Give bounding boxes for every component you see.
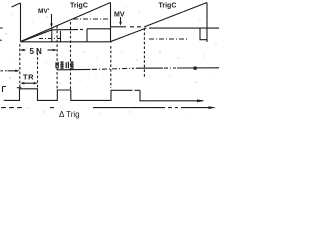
row3 junction dot — [194, 67, 197, 70]
row2 dash-dot level after ramp B — [149, 38, 189, 40]
mid dash-dot level y=38.5 — [39, 38, 63, 40]
svg-text:TrigC: TrigC — [159, 3, 177, 10]
svg-text:5N: 5N — [30, 47, 44, 56]
label modulation (CJK glyph blobs drawn as strokes) — [56, 62, 74, 69]
5N span marks — [21, 49, 26, 51]
row2 ramp B (holdoff ramp cycle 2) — [111, 28, 146, 41]
left margin tick y=28 — [0, 27, 3, 29]
ramp R2 (main sweep, second cycle) — [144, 3, 207, 28]
row2 step down — [200, 29, 208, 40]
row2 baseline — [21, 41, 113, 43]
row2 vertical x=87 — [86, 29, 88, 42]
trigger level dash-dot line y=19 — [73, 18, 110, 20]
left margin tick y=40 — [0, 39, 2, 41]
baseline right of ramp2 start — [149, 27, 219, 29]
dashed alignment vertical x=110.8 — [110, 46, 112, 88]
axis arrowhead bottom — [197, 99, 205, 102]
corner stub left of pulse1 — [17, 87, 22, 89]
MV arrow — [120, 17, 122, 25]
dashed alignment vertical x=57.1 — [56, 26, 58, 90]
bottom pulse train — [4, 89, 133, 101]
axis vertical with arrow — [20, 3, 22, 42]
svg-text:MV: MV — [114, 12, 125, 19]
flyback 1 — [110, 3, 112, 42]
row2 gate top line — [52, 29, 78, 31]
scan speckle noise — [5, 6, 216, 114]
flyback 2 — [206, 3, 208, 43]
delta trig dimension line — [1, 107, 22, 109]
dashed alignment vertical x=19.8 — [19, 44, 21, 89]
dashed alignment vertical x=70.5 — [70, 22, 72, 90]
MV' arrow — [51, 14, 53, 27]
svg-text:Δ Trig: Δ Trig — [59, 110, 80, 119]
dashed alignment vertical x=37.5 — [37, 48, 39, 89]
axis arrow tick — [12, 3, 21, 7]
svg-text:TR: TR — [23, 73, 34, 82]
row2 ramp A (holdoff ramp cycle 1) — [21, 30, 52, 42]
left margin glyph — [3, 87, 7, 93]
ramp R1 (main sweep, first cycle) — [21, 3, 111, 42]
dashed alignment vertical x=144.4 — [143, 28, 145, 78]
TR span double arrow — [23, 82, 36, 84]
svg-text:MV': MV' — [38, 8, 50, 15]
holdoff level line y=26.8 — [111, 26, 127, 28]
row3 level line — [57, 68, 91, 70]
svg-text:TrigC: TrigC — [70, 3, 88, 10]
row2 short vertical x=60.5 — [60, 31, 62, 42]
row2 ramp A flyback — [51, 29, 53, 42]
row3 left arrow into axis — [1, 70, 7, 72]
